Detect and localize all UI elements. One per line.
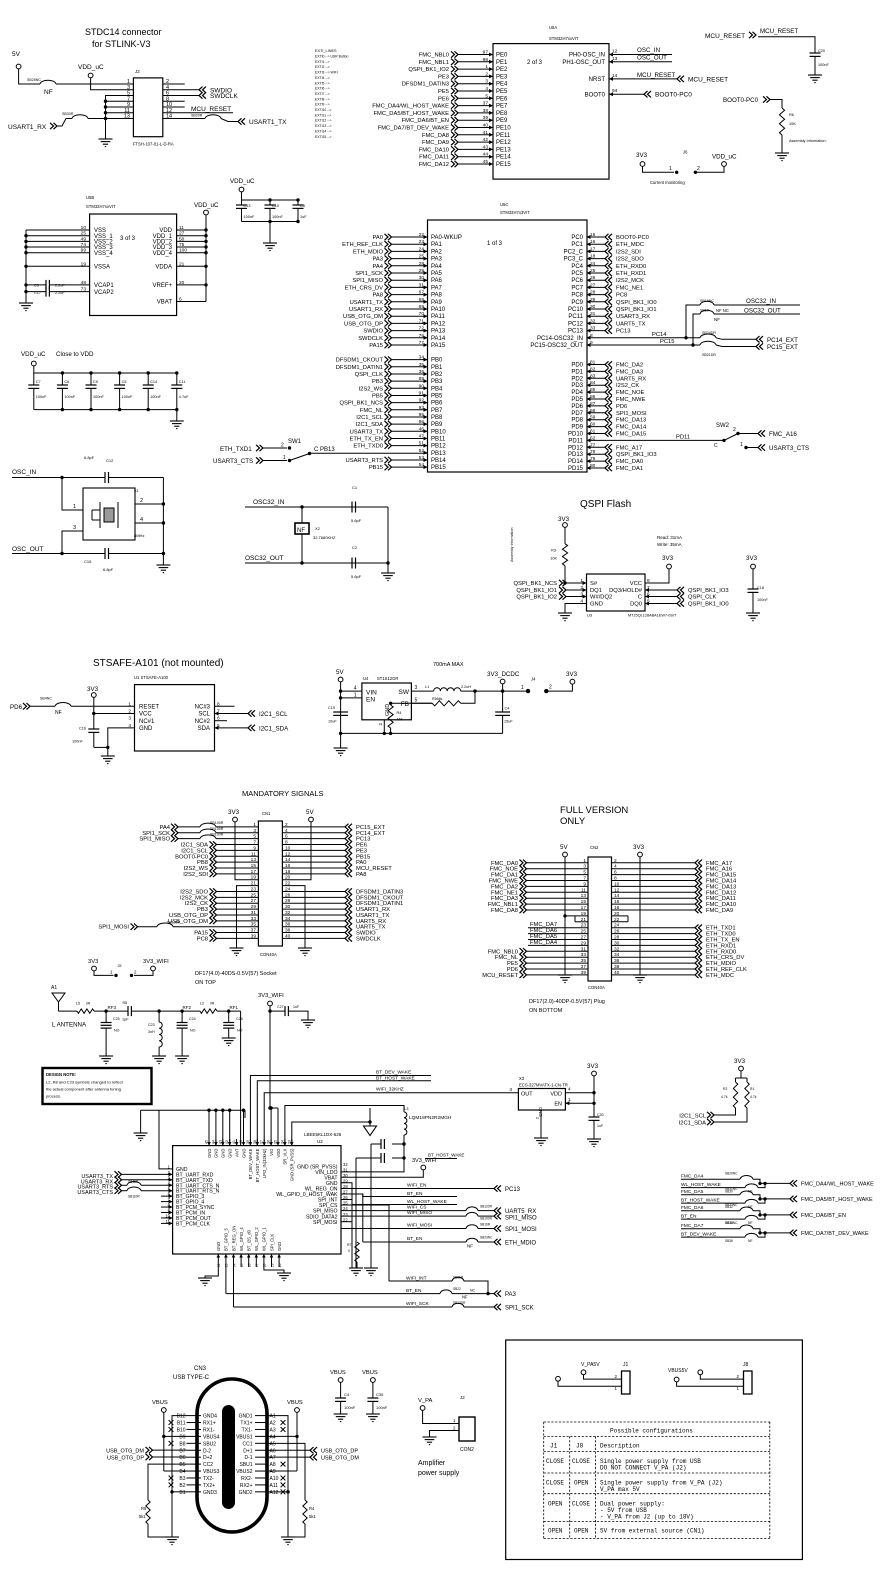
svg-text:5: 5 — [485, 93, 488, 99]
svg-text:GND (SR_PVSS): GND (SR_PVSS) — [290, 1148, 295, 1181]
wire I2C1_SCL from U1 — [215, 713, 249, 715]
svg-text:LQM18PN2R2MGH: LQM18PN2R2MGH — [409, 1115, 452, 1121]
svg-text:J1: J1 — [623, 1362, 629, 1368]
svg-text:3: 3 — [415, 685, 418, 691]
svg-text:USB_OTG_DM: USB_OTG_DM — [106, 1449, 144, 1455]
wire X3 EN — [565, 1102, 594, 1104]
svg-text:I2S2_WS: I2S2_WS — [359, 386, 384, 392]
wire PC14 to OSC32_IN bridge SB18NC — [686, 305, 700, 338]
svg-text:L2, R8 and C23 symbols changed: L2, R8 and C23 symbols changed to reflec… — [46, 1080, 124, 1085]
svg-text:15: 15 — [590, 232, 596, 238]
svg-text:PE2: PE2 — [496, 67, 508, 73]
svg-text:C23: C23 — [148, 1023, 155, 1027]
stub U1 NC pins — [215, 705, 235, 707]
CN2 pin 32 ETH_RXD0 — [612, 950, 696, 952]
svg-text:FTSH-107-01-L-D-RA: FTSH-107-01-L-D-RA — [133, 142, 174, 147]
svg-text:ETH_MDIO: ETH_MDIO — [353, 249, 383, 255]
svg-text:ETH_REF_CLK: ETH_REF_CLK — [342, 242, 383, 248]
svg-text:C4: C4 — [505, 707, 510, 711]
svg-text:19: 19 — [270, 1263, 274, 1267]
svg-text:SB20R: SB20R — [191, 114, 203, 118]
svg-text:1uF: 1uF — [597, 1124, 604, 1128]
svg-text:PC8: PC8 — [616, 293, 627, 299]
svg-text:47: 47 — [419, 433, 425, 439]
svg-text:B11: B11 — [177, 1421, 186, 1427]
capacitor C7 100nF — [33, 373, 35, 385]
svg-text:77: 77 — [419, 340, 425, 346]
svg-text:OPEN: OPEN — [548, 1528, 563, 1535]
svg-text:ETH_MDC: ETH_MDC — [616, 242, 644, 248]
svg-text:PE9: PE9 — [496, 118, 508, 124]
svg-text:PE4: PE4 — [496, 82, 508, 88]
svg-text:FMC_DA4/WL_HOST_WAKE: FMC_DA4/WL_HOST_WAKE — [801, 1182, 874, 1188]
ground CN3 right — [281, 1537, 295, 1545]
svg-text:FMC_DA8: FMC_DA8 — [491, 908, 518, 914]
svg-text:VCC: VCC — [139, 712, 152, 718]
unconnected marks CN3 right — [281, 1420, 286, 1425]
svg-text:FMC_DA11: FMC_DA11 — [419, 155, 449, 161]
svg-text:C10: C10 — [272, 204, 279, 208]
svg-text:VCC: VCC — [630, 581, 642, 587]
unconnected marks CN3 left — [169, 1420, 174, 1425]
svg-text:700mA MAX: 700mA MAX — [433, 662, 464, 668]
svg-text:10: 10 — [614, 881, 620, 887]
svg-text:BT_HOST_WAKE: BT_HOST_WAKE — [376, 1076, 415, 1082]
solder bridge SB25NC — [40, 80, 56, 84]
svg-text:WL_GPIO_1: WL_GPIO_1 — [262, 1227, 267, 1251]
svg-text:USART3_TX: USART3_TX — [350, 429, 384, 435]
svg-text:B7: B7 — [179, 1448, 185, 1454]
svg-text:5V: 5V — [306, 809, 314, 816]
svg-text:TX2+: TX2+ — [203, 1483, 215, 1489]
svg-text:A6: A6 — [270, 1448, 276, 1454]
svg-text:B6: B6 — [179, 1455, 185, 1461]
svg-text:PB1: PB1 — [431, 365, 443, 371]
svg-text:SB31NC: SB31NC — [725, 1187, 738, 1191]
CN2 pin 40 ETH_MDC — [612, 974, 696, 976]
ground U1 — [108, 728, 135, 748]
svg-text:FMC_A16: FMC_A16 — [769, 431, 797, 438]
svg-text:A10: A10 — [270, 1476, 279, 1482]
svg-text:SPI1_SCK: SPI1_SCK — [355, 271, 383, 277]
svg-text:100nF: 100nF — [244, 215, 255, 219]
svg-text:D+2: D+2 — [203, 1455, 213, 1461]
ground C25 — [99, 1056, 113, 1064]
svg-text:97: 97 — [483, 50, 489, 56]
wire VIO VDD to 3V3_WIFI — [270, 1108, 272, 1146]
svg-text:VCAP1: VCAP1 — [94, 283, 114, 289]
svg-text:41: 41 — [483, 130, 489, 136]
svg-text:SWDCLK: SWDCLK — [210, 93, 238, 100]
svg-text:J8: J8 — [576, 1443, 584, 1450]
svg-text:1: 1 — [283, 455, 286, 461]
svg-text:PA5: PA5 — [431, 271, 443, 277]
ground decoupling row2 — [176, 410, 178, 421]
svg-text:C11: C11 — [179, 380, 186, 384]
wire WL_HOST_WAKE net — [341, 1200, 457, 1205]
svg-text:NC: NC — [470, 1289, 476, 1293]
svg-text:SR_VLX: SR_VLX — [283, 1148, 288, 1164]
svg-text:GND: GND — [214, 1149, 219, 1158]
svg-text:ETH_TXD0: ETH_TXD0 — [353, 444, 383, 450]
svg-text:EXTI4 -->: EXTI4 --> — [315, 76, 330, 80]
svg-text:USB_OTG_DM: USB_OTG_DM — [321, 1455, 359, 1461]
CN2 pin 34 ETH_CRS_DV — [612, 956, 696, 958]
svg-text:B4: B4 — [179, 1469, 185, 1475]
svg-text:B2: B2 — [179, 1483, 185, 1489]
capacitor C sr2 — [392, 1144, 404, 1158]
svg-text:U4: U4 — [363, 676, 369, 681]
svg-text:VBUS2: VBUS2 — [236, 1469, 253, 1475]
svg-text:PE6: PE6 — [438, 96, 449, 102]
svg-text:32.7680KHZ: 32.7680KHZ — [313, 535, 336, 540]
svg-text:GND: GND — [277, 1242, 282, 1251]
wire VDD_uC to J2 pin3 — [91, 78, 134, 90]
svg-text:ST1S12GR: ST1S12GR — [377, 676, 398, 681]
svg-text:L3: L3 — [404, 1106, 409, 1111]
svg-text:USART3_CTS: USART3_CTS — [77, 1190, 113, 1196]
svg-text:TX1-: TX1- — [242, 1427, 253, 1433]
svg-text:A4: A4 — [270, 1434, 276, 1440]
svg-text:SB29NC: SB29NC — [725, 1172, 738, 1176]
wire RF main — [59, 1010, 78, 1012]
svg-text:PC2_C: PC2_C — [564, 249, 584, 255]
svg-text:WL_GPIO_4: WL_GPIO_4 — [239, 1227, 244, 1251]
wire CN1 pin22 ground — [282, 886, 305, 948]
svg-text:power supply: power supply — [418, 1470, 460, 1477]
svg-text:PA11: PA11 — [431, 314, 445, 320]
svg-text:NF NC: NF NC — [716, 308, 729, 313]
svg-text:C18: C18 — [757, 586, 764, 590]
svg-text:PC5: PC5 — [571, 271, 583, 277]
svg-text:C7: C7 — [36, 380, 41, 384]
svg-text:37: 37 — [483, 101, 489, 107]
svg-text:C15: C15 — [84, 559, 92, 564]
svg-text:46: 46 — [419, 426, 425, 432]
svg-text:A8: A8 — [270, 1462, 276, 1468]
capacitor C13 100nF — [241, 200, 243, 205]
svg-text:PE11: PE11 — [496, 133, 511, 139]
svg-text:3V3_WIFI: 3V3_WIFI — [143, 959, 169, 965]
svg-text:VCAP2: VCAP2 — [94, 290, 114, 296]
svg-text:PD1: PD1 — [571, 369, 583, 375]
svg-text:VDDA: VDDA — [155, 265, 172, 271]
svg-text:14: 14 — [614, 893, 620, 899]
svg-text:71: 71 — [419, 318, 425, 324]
svg-text:SB100R: SB100R — [480, 1217, 493, 1221]
svg-text:CLOSE: CLOSE — [546, 1479, 564, 1486]
ground U2 bottom left — [198, 1278, 212, 1286]
svg-text:PB3: PB3 — [372, 379, 383, 385]
wire WIFI_32KHZ to X3 — [264, 1093, 518, 1146]
svg-text:SPI1_SCK: SPI1_SCK — [505, 1306, 534, 1312]
svg-text:3V3: 3V3 — [633, 844, 645, 851]
svg-text:100nF: 100nF — [72, 740, 83, 744]
svg-text:PA6: PA6 — [431, 278, 443, 284]
svg-text:40: 40 — [483, 123, 489, 129]
svg-text:4: 4 — [614, 864, 617, 870]
svg-text:SB19: SB19 — [700, 309, 709, 313]
svg-text:VDD: VDD — [276, 1149, 281, 1158]
svg-text:EXTI7 -->: EXTI7 --> — [315, 92, 330, 96]
svg-text:2: 2 — [697, 166, 700, 172]
svg-text:PD6: PD6 — [616, 404, 627, 410]
svg-text:PB0: PB0 — [431, 358, 443, 364]
svg-text:PA4: PA4 — [431, 264, 443, 270]
svg-text:LBEE5KL1DX-626: LBEE5KL1DX-626 — [304, 1132, 342, 1137]
svg-text:13: 13 — [581, 893, 587, 899]
svg-text:C3: C3 — [34, 284, 39, 288]
svg-text:1: 1 — [568, 1097, 571, 1103]
svg-text:53: 53 — [419, 455, 425, 461]
svg-text:SPI_MOSI: SPI_MOSI — [313, 1220, 338, 1226]
svg-text:FMC_DA13: FMC_DA13 — [616, 418, 646, 424]
svg-text:VDD: VDD — [550, 1092, 562, 1098]
svg-text:PA4: PA4 — [372, 264, 383, 270]
svg-text:C: C — [714, 443, 718, 449]
svg-text:USB_OTG_DP: USB_OTG_DP — [321, 1448, 358, 1454]
svg-text:L1: L1 — [425, 685, 429, 689]
svg-text:FMC_DA3: FMC_DA3 — [616, 369, 643, 375]
svg-text:QSPI Flash: QSPI Flash — [580, 499, 631, 510]
wire WIFI_MOSI to SPI1_MOSI — [341, 1228, 466, 1230]
svg-text:PB10: PB10 — [431, 429, 446, 435]
wire X3 GND pin2 — [540, 1110, 542, 1138]
wire WIFI_CS to UART5_RX — [341, 1210, 466, 1212]
svg-text:PB8: PB8 — [431, 415, 443, 421]
svg-text:38: 38 — [483, 108, 489, 114]
svg-text:PA9: PA9 — [431, 300, 443, 306]
svg-text:VBUS4: VBUS4 — [203, 1434, 220, 1440]
svg-text:15k: 15k — [397, 718, 403, 722]
svg-text:5V: 5V — [336, 669, 344, 676]
svg-text:16: 16 — [614, 899, 620, 905]
svg-text:PC11: PC11 — [568, 314, 583, 320]
wire X2 right vertical — [387, 507, 389, 563]
svg-text:28: 28 — [590, 290, 596, 296]
svg-text:GND1: GND1 — [239, 1414, 253, 1420]
ground CN1 left — [230, 948, 244, 956]
svg-text:GND: GND — [385, 704, 391, 716]
svg-text:ETH_MDIO: ETH_MDIO — [505, 1241, 536, 1247]
svg-text:PA0: PA0 — [372, 235, 383, 241]
CN2 pin 28 ETH_TX_EN — [612, 939, 696, 941]
svg-text:100nF: 100nF — [150, 395, 161, 399]
svg-text:NF: NF — [462, 1294, 468, 1299]
CN2 pin 6 FMC_DA15 — [612, 874, 696, 876]
svg-text:FMC_DA2: FMC_DA2 — [616, 363, 643, 369]
svg-text:43: 43 — [483, 144, 489, 150]
svg-text:PE15: PE15 — [496, 162, 511, 168]
svg-text:5: 5 — [415, 698, 418, 704]
svg-text:14: 14 — [232, 1263, 236, 1267]
svg-text:X3: X3 — [519, 1076, 525, 1081]
svg-text:EXTI3 --> WIFI: EXTI3 --> WIFI — [315, 71, 338, 75]
svg-text:NF: NF — [714, 317, 720, 322]
svg-text:SPI1_MISO: SPI1_MISO — [139, 837, 170, 843]
ground U2 bottom right — [277, 1273, 291, 1281]
svg-text:1uF: 1uF — [300, 215, 307, 219]
svg-text:UART5_RX: UART5_RX — [616, 376, 646, 382]
svg-text:3V3: 3V3 — [734, 1058, 746, 1065]
wire X3 VDD — [565, 1092, 594, 1094]
svg-text:RF1: RF1 — [230, 1005, 239, 1010]
svg-text:PA14: PA14 — [431, 336, 446, 342]
svg-text:RF3: RF3 — [108, 1005, 117, 1010]
svg-text:C1: C1 — [352, 485, 358, 490]
svg-text:FMC_DA12: FMC_DA12 — [419, 162, 449, 168]
svg-text:SB36: SB36 — [725, 1239, 733, 1243]
svg-text:MCU_RESET: MCU_RESET — [688, 76, 728, 83]
svg-text:SB18NC: SB18NC — [700, 299, 714, 303]
node after R8 — [157, 1009, 160, 1012]
svg-text:DQ1: DQ1 — [590, 588, 602, 594]
svg-text:PE3: PE3 — [496, 74, 508, 80]
svg-text:17: 17 — [590, 246, 596, 252]
switch SW2 PD11 — [587, 439, 725, 441]
svg-text:PA8: PA8 — [372, 293, 383, 299]
svg-text:4.7k: 4.7k — [721, 1095, 728, 1099]
svg-text:4.7uF: 4.7uF — [179, 395, 189, 399]
svg-text:1uF: 1uF — [293, 1005, 300, 1009]
ground X1 — [162, 554, 164, 566]
svg-text:FMC_NE1: FMC_NE1 — [616, 285, 643, 291]
wire 3V3_WIFI vertical to U2 — [269, 1011, 271, 1108]
svg-text:FMC_DA7/BT_DEV_WAKE: FMC_DA7/BT_DEV_WAKE — [378, 126, 449, 132]
svg-text:L ANTENNA: L ANTENNA — [52, 1022, 87, 1029]
svg-text:36: 36 — [614, 958, 620, 964]
svg-text:C35: C35 — [376, 1392, 384, 1397]
svg-text:PD5: PD5 — [571, 397, 583, 403]
svg-text:2.2uF: 2.2uF — [55, 284, 65, 288]
svg-text:R5: R5 — [141, 1506, 147, 1511]
svg-text:EXTI10 -->: EXTI10 --> — [315, 108, 332, 112]
ground CN3 left — [165, 1537, 179, 1545]
wire U5B VSS bus — [26, 229, 90, 231]
svg-text:C2: C2 — [352, 545, 358, 550]
ground C24 — [175, 1056, 189, 1064]
svg-text:PB3: PB3 — [431, 379, 443, 385]
capacitor C8 1uF — [297, 200, 299, 205]
svg-text:3: 3 — [583, 864, 586, 870]
svg-text:25: 25 — [590, 268, 596, 274]
svg-text:1: 1 — [669, 166, 672, 172]
table outer box — [506, 1340, 803, 1560]
svg-text:89: 89 — [419, 376, 425, 382]
svg-text:ETH_CRS_DV: ETH_CRS_DV — [345, 285, 383, 291]
svg-text:PD0: PD0 — [571, 363, 583, 369]
wire 5V to J2 pin1 — [19, 69, 40, 84]
svg-text:BT_EN: BT_EN — [407, 1236, 423, 1242]
svg-text:4.7k: 4.7k — [750, 1095, 757, 1099]
svg-text:BT_HOST_WAKE: BT_HOST_WAKE — [428, 1153, 464, 1158]
svg-text:15: 15 — [581, 899, 587, 905]
svg-text:QSPI_BK1_NCS: QSPI_BK1_NCS — [340, 401, 384, 407]
svg-text:PA1: PA1 — [431, 242, 443, 248]
svg-text:I2S2_SDI: I2S2_SDI — [183, 872, 208, 878]
svg-text:PD11: PD11 — [676, 434, 690, 440]
wire SWDCLK — [163, 95, 199, 97]
svg-text:EXTI15 -->: EXTI15 --> — [315, 135, 332, 139]
capacitor C9 100nF — [90, 373, 92, 385]
svg-text:TX2-: TX2- — [203, 1476, 214, 1482]
capacitor C24 shunt — [181, 1011, 183, 1022]
svg-text:ONLY: ONLY — [560, 816, 586, 827]
svg-text:PC13: PC13 — [568, 329, 584, 335]
svg-text:C14: C14 — [150, 380, 157, 384]
svg-text:BT_REG_ON: BT_REG_ON — [231, 1226, 236, 1251]
svg-text:OUT: OUT — [521, 1092, 533, 1098]
svg-text:Possible configurations: Possible configurations — [610, 1428, 693, 1435]
svg-text:VDD_uC: VDD_uC — [78, 64, 104, 71]
svg-text:1: 1 — [740, 442, 743, 448]
svg-text:18: 18 — [590, 254, 596, 260]
resistor R3 10K — [564, 528, 566, 544]
wire BT_REG_ON to BT_EN line — [225, 1267, 227, 1294]
svg-text:OSC_IN: OSC_IN — [637, 47, 660, 54]
svg-text:QSPI_CLK: QSPI_CLK — [355, 372, 383, 378]
inductor L1 2.2uH — [411, 690, 433, 692]
svg-text:ETH_TX_EN: ETH_TX_EN — [349, 436, 383, 442]
svg-text:100nF: 100nF — [93, 395, 104, 399]
svg-text:GND: GND — [207, 1149, 212, 1158]
svg-text:51: 51 — [419, 441, 425, 447]
svg-text:3V3_WIFI: 3V3_WIFI — [258, 993, 284, 999]
CN2 pin 10 FMC_DA13 — [612, 885, 696, 887]
svg-text:RX1+: RX1+ — [203, 1421, 216, 1427]
svg-text:BOOT0-PC0: BOOT0-PC0 — [723, 97, 759, 104]
svg-text:SBU2: SBU2 — [203, 1441, 216, 1447]
capacitor C27 1uF — [270, 1010, 285, 1012]
svg-text:SWDCLK: SWDCLK — [358, 336, 383, 342]
svg-text:Description: Description — [600, 1443, 640, 1450]
svg-text:STDC14 connector: STDC14 connector — [85, 27, 162, 37]
ground DCDC — [340, 733, 342, 748]
svg-text:4: 4 — [485, 86, 488, 92]
svg-text:91: 91 — [419, 390, 425, 396]
svg-text:PC13: PC13 — [505, 1187, 521, 1193]
svg-text:PB5: PB5 — [372, 393, 383, 399]
svg-text:U2: U2 — [317, 1139, 323, 1144]
svg-text:17: 17 — [581, 905, 587, 911]
svg-text:PC15-OSC32_OUT: PC15-OSC32_OUT — [530, 343, 583, 349]
svg-text:USART3_CTS: USART3_CTS — [769, 445, 809, 452]
svg-text:29: 29 — [590, 297, 596, 303]
svg-text:2: 2 — [614, 858, 617, 864]
svg-text:VREF+: VREF+ — [152, 283, 172, 289]
svg-text:SB25NC: SB25NC — [27, 78, 41, 82]
wire U5B VDD bus — [205, 215, 207, 302]
capacitor C5 100nF — [119, 373, 121, 385]
svg-text:WIFI_CS: WIFI_CS — [407, 1204, 426, 1210]
svg-text:C26: C26 — [236, 1017, 243, 1021]
svg-text:VDD_4: VDD_4 — [153, 251, 173, 257]
svg-text:SPI1_MOSI: SPI1_MOSI — [616, 411, 647, 417]
capacitor C sr1 — [392, 1135, 404, 1144]
svg-text:12: 12 — [614, 887, 620, 893]
svg-text:PD14: PD14 — [568, 459, 584, 465]
svg-text:PA0-WKUP: PA0-WKUP — [431, 235, 462, 241]
svg-text:SB35NC: SB35NC — [725, 1221, 738, 1225]
svg-text:5.6pF: 5.6pF — [351, 574, 362, 579]
svg-text:QSPI_BK1_NCS: QSPI_BK1_NCS — [514, 581, 558, 587]
svg-text:0R: 0R — [210, 1002, 215, 1006]
svg-text:LPO_IN(32kHz): LPO_IN(32kHz) — [262, 1148, 267, 1178]
svg-text:USART3_CTS: USART3_CTS — [213, 458, 253, 465]
svg-text:VBUS1: VBUS1 — [236, 1434, 253, 1440]
svg-text:A3: A3 — [270, 1427, 276, 1433]
svg-text:OSC32_OUT: OSC32_OUT — [245, 555, 284, 562]
